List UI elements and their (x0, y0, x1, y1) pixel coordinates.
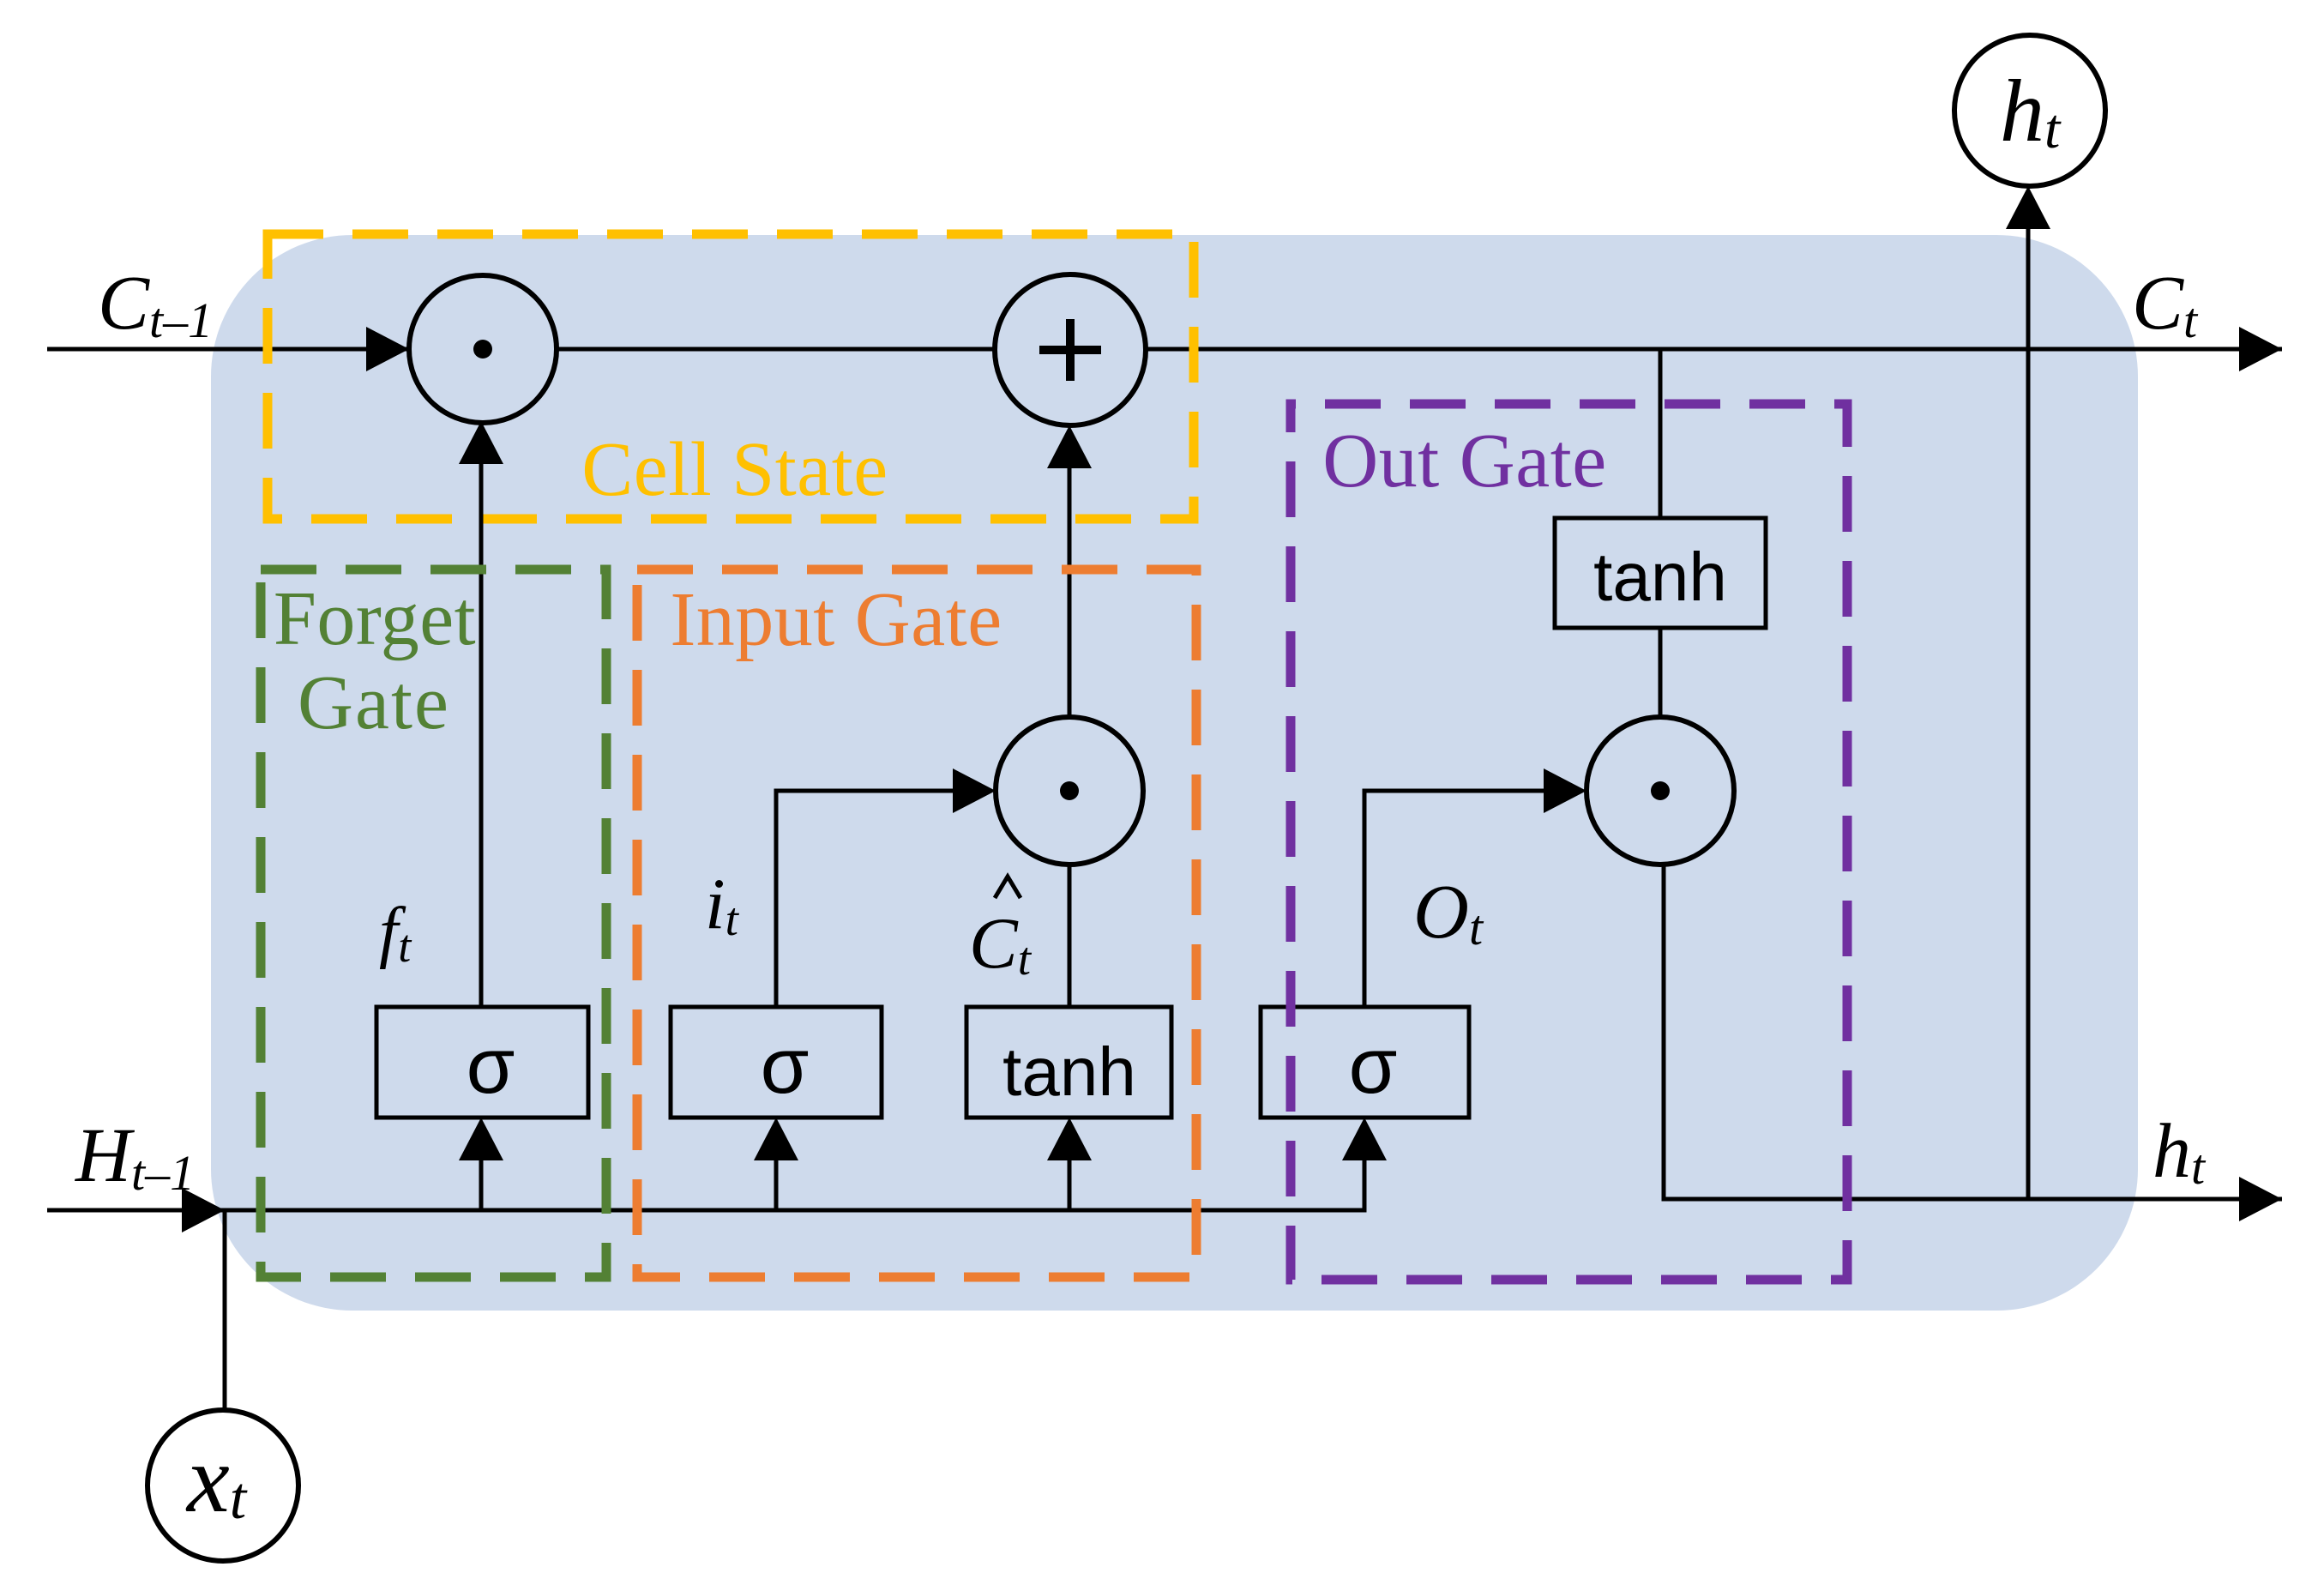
svg-text:Input Gate: Input Gate (670, 577, 1002, 662)
svg-text:Forget: Forget (274, 576, 476, 661)
svg-text:tanh: tanh (1002, 1034, 1136, 1110)
svg-text:σ: σ (467, 1022, 515, 1110)
svg-text:tanh: tanh (1593, 539, 1727, 615)
svg-text:Gate: Gate (298, 660, 450, 745)
svg-text:Cell State: Cell State (581, 427, 888, 512)
svg-text:Out Gate: Out Gate (1322, 419, 1606, 503)
svg-text:σ: σ (761, 1022, 810, 1110)
svg-text:σ: σ (1349, 1022, 1398, 1110)
